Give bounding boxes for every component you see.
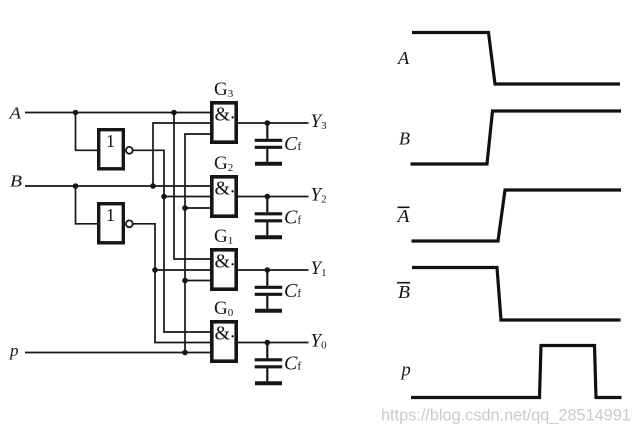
svg-text:Y3: Y3 <box>311 111 328 132</box>
svg-text:G0: G0 <box>214 298 234 319</box>
svg-text:B: B <box>398 282 410 302</box>
svg-text:B: B <box>399 129 410 149</box>
svg-text:&.: &. <box>215 249 236 273</box>
svg-text:Y2: Y2 <box>311 185 327 206</box>
svg-text:https://blog.csdn.net/qq_28514: https://blog.csdn.net/qq_28514991 <box>381 407 631 425</box>
svg-text:Cf: Cf <box>284 353 301 375</box>
svg-text:1: 1 <box>106 205 115 225</box>
svg-text:Y0: Y0 <box>311 331 328 352</box>
svg-text:&.: &. <box>215 176 236 200</box>
svg-text:G1: G1 <box>214 226 233 247</box>
svg-text:B: B <box>10 171 23 190</box>
svg-text:Cf: Cf <box>284 133 301 155</box>
svg-text:G2: G2 <box>214 153 233 174</box>
svg-text:Cf: Cf <box>284 280 301 302</box>
svg-text:Y1: Y1 <box>311 258 327 279</box>
svg-text:G3: G3 <box>214 79 234 100</box>
svg-text:p: p <box>9 341 19 360</box>
svg-text:1: 1 <box>106 131 115 151</box>
svg-text:A: A <box>8 104 21 123</box>
svg-text:Cf: Cf <box>284 207 301 229</box>
svg-text:&.: &. <box>215 102 236 126</box>
svg-text:&.: &. <box>215 321 236 345</box>
svg-text:A: A <box>397 48 410 68</box>
svg-text:p: p <box>400 361 411 381</box>
svg-text:A: A <box>396 206 409 226</box>
